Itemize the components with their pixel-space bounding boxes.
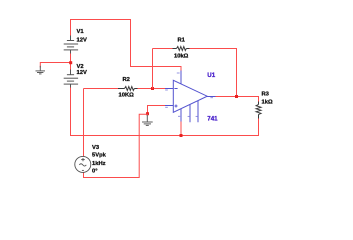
svg-text:1kHz: 1kHz <box>92 161 106 167</box>
resistor R2 <box>118 87 138 91</box>
source V3 AC <box>75 156 91 172</box>
svg-text:741: 741 <box>207 115 218 122</box>
wire non-inverting input to ground junction <box>148 106 166 115</box>
battery V2 <box>64 70 78 88</box>
ground GND1 left <box>36 66 46 74</box>
svg-text:R3: R3 <box>262 92 270 98</box>
wire top horizontal to V+ down <box>130 19 132 67</box>
label V2 value 12V <box>77 70 87 76</box>
svg-text:10kΩ: 10kΩ <box>174 54 189 60</box>
wire V+ pin drop <box>180 67 182 72</box>
battery V1 <box>64 36 78 54</box>
svg-text:1kΩ: 1kΩ <box>262 100 273 106</box>
node junction IN+ ground <box>146 112 149 115</box>
label R3 <box>262 92 270 98</box>
node junction output/R1 <box>235 95 238 98</box>
resistor R1 <box>173 47 190 51</box>
wire R1 right horizontal <box>189 48 237 50</box>
wire V1 top vertical <box>71 20 132 36</box>
wire V2 bottom down <box>70 88 72 137</box>
wire R2 left horizontal <box>84 88 119 90</box>
node junction V- rail <box>180 134 183 137</box>
wire R2 right to inverting input <box>137 88 165 90</box>
label R2 <box>123 77 130 83</box>
wire R2 input vertical to V3 <box>83 89 85 157</box>
label R3 value 1kΩ <box>262 100 273 106</box>
label V3 <box>92 145 100 151</box>
node junction V1-V2 <box>69 61 72 64</box>
label V3 value 1kHz <box>92 161 106 167</box>
wire ground tap left <box>40 63 70 68</box>
wire feedback vertical <box>152 49 154 89</box>
svg-text:R2: R2 <box>123 77 130 83</box>
label V1 value 12V <box>77 38 87 44</box>
wire V3 bottom stub <box>83 172 85 178</box>
wire V+ rail horizontal <box>131 66 182 68</box>
label R1 <box>178 38 186 44</box>
svg-text:V1: V1 <box>77 29 85 35</box>
svg-text:10KΩ: 10KΩ <box>119 93 135 99</box>
wire R1 left horizontal <box>153 48 174 50</box>
resistor R3 <box>256 102 261 119</box>
label V3 value 0deg <box>92 169 98 175</box>
svg-text:V3: V3 <box>92 145 100 151</box>
ground GND2 under op-amp <box>142 115 153 126</box>
svg-text:12V: 12V <box>77 38 87 44</box>
wire ground jog left and down to V3 minus <box>84 114 148 177</box>
label V1 <box>77 29 85 35</box>
wire V- pin to rail <box>180 122 182 137</box>
label R2 value 10KΩ <box>119 93 135 99</box>
label V3 value 5Vpk <box>92 153 107 159</box>
label U1 <box>207 72 215 79</box>
label 741 <box>207 115 218 122</box>
wire V1 to V2 <box>70 53 72 70</box>
svg-text:12V: 12V <box>77 70 87 76</box>
wire R3 bottom vertical <box>258 119 260 137</box>
svg-text:5Vpk: 5Vpk <box>92 153 107 159</box>
wire bottom rail <box>71 135 260 137</box>
op-amp U1 741 <box>165 71 216 123</box>
node junction R2/R1/IN- <box>151 87 154 90</box>
wire R1 right vertical <box>236 49 238 97</box>
op-amp pin number marks <box>165 73 213 116</box>
svg-text:0°: 0° <box>92 169 98 175</box>
svg-text:R1: R1 <box>178 38 186 44</box>
label R1 value 10kΩ <box>174 54 189 60</box>
label V2 <box>77 64 84 70</box>
svg-text:U1: U1 <box>207 72 215 79</box>
wire R3 top vertical <box>258 97 260 102</box>
wire op-amp output <box>216 96 260 98</box>
